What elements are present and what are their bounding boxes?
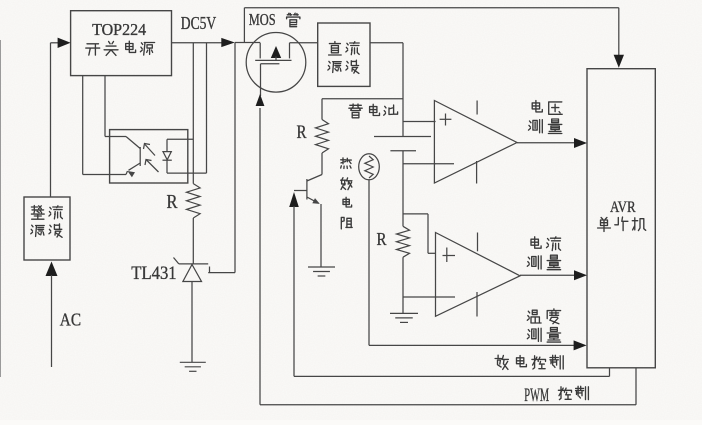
svg-text:R: R <box>167 192 178 213</box>
svg-text:TOP224: TOP224 <box>92 20 146 39</box>
svg-text:TL431: TL431 <box>131 263 176 284</box>
svg-text:R: R <box>297 122 307 143</box>
svg-text:DC5V: DC5V <box>181 13 216 33</box>
svg-text:R: R <box>377 229 387 249</box>
svg-text:PWM: PWM <box>524 386 549 406</box>
svg-text:MOS: MOS <box>249 10 276 29</box>
svg-text:AVR: AVR <box>610 199 636 216</box>
svg-text:AC: AC <box>60 310 81 330</box>
